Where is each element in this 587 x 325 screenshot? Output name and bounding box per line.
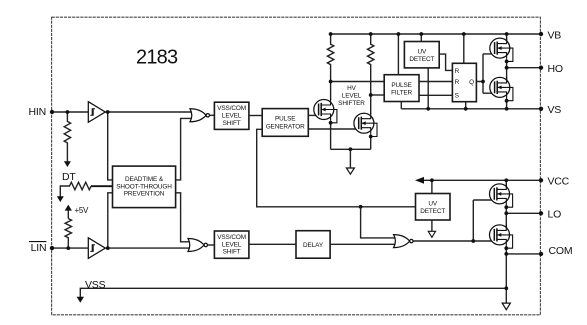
wire node A down to Q1 drain: [330, 82, 332, 101]
NOR gate G3: [394, 235, 413, 248]
pin dot LIN: [50, 246, 54, 250]
wire VCC rail to Q5 drain: [505, 180, 507, 189]
wire to VS return arrow: [349, 149, 351, 168]
svg-text:VSS/COM: VSS/COM: [217, 234, 246, 241]
node HIN junction: [66, 110, 70, 114]
node U2 output: [106, 246, 110, 250]
pulse generator block: [262, 109, 308, 137]
wire VCC rail to UV detect (low side): [431, 180, 433, 193]
open arrow below UV detect: [428, 231, 435, 237]
svg-text:UV: UV: [428, 200, 438, 207]
svg-text:DETECT: DETECT: [409, 56, 434, 63]
node G3 output branch: [471, 239, 475, 243]
svg-text:FILTER: FILTER: [391, 89, 412, 96]
svg-text:R: R: [455, 68, 460, 75]
arrow VCC (pointing left): [415, 177, 424, 184]
RS latch U3: [452, 63, 476, 101]
resistor R3 (+5V pullup on LIN): [65, 219, 71, 249]
node U1 output: [106, 110, 110, 114]
wire pulse generator to Q1 gate: [308, 114, 319, 116]
wire VB rail to UV detect: [420, 34, 422, 42]
svg-text:SHIFTER: SHIFTER: [338, 100, 365, 107]
svg-text:PULSE: PULSE: [275, 116, 295, 123]
NOR gate G2: [188, 239, 208, 252]
node LIN junction: [66, 246, 70, 250]
node level shifter common: [349, 147, 353, 151]
transistor Q1 (HV level shift left): [314, 99, 337, 125]
svg-text:DETECT: DETECT: [420, 208, 445, 215]
wire HIN buffer output to NOR gate G1: [105, 111, 193, 113]
node B junction: [369, 93, 373, 97]
pin label LIN (with overline): [29, 242, 46, 255]
VSS/COM level shift block (top): [214, 102, 249, 129]
wire branch down to NOR gate G3 upper input: [361, 207, 397, 238]
wire HIN buffer output down to deadtime block: [108, 112, 113, 180]
svg-text:Q: Q: [469, 79, 474, 86]
NOR gate G1: [190, 109, 210, 122]
svg-text:VSS/COM: VSS/COM: [217, 105, 246, 112]
UV detect block (high side): [404, 42, 439, 68]
node A junction: [329, 80, 333, 84]
svg-text:VCC: VCC: [548, 176, 570, 188]
svg-text:LEVEL: LEVEL: [222, 113, 242, 120]
wire LO rail to Q6 drain: [505, 213, 507, 230]
wire UV detect bottom to VS rail: [427, 68, 429, 109]
svg-text:PULSE: PULSE: [391, 82, 411, 89]
resistor R5 (level shift pullup right): [368, 34, 374, 95]
wire COM down to ground arrow: [505, 254, 507, 304]
resistor R4 (level shift pullup left): [327, 34, 333, 82]
wire Q3 source to HO rail: [506, 61, 508, 67]
transistor Q3 (HO high driver): [490, 38, 513, 64]
wire G3 output to LO gates: [413, 200, 494, 241]
deadtime block: [113, 166, 176, 208]
open arrow to VS (level shifter return): [346, 168, 354, 174]
wire VB rail to pulse filter: [397, 34, 399, 75]
svg-text:LO: LO: [548, 209, 562, 221]
wire UV detect to latch R input: [439, 54, 452, 70]
svg-text:SHOOT-THROUGH: SHOOT-THROUGH: [116, 183, 172, 190]
LO output rail: [506, 212, 541, 214]
+5V source arrow: [65, 205, 72, 211]
wire level shifter source rail: [331, 148, 371, 150]
wire Q2 source to common point: [370, 137, 372, 150]
IC boundary (dashed package outline): [52, 17, 541, 315]
VS feedback rail: [401, 108, 541, 110]
node low-side branch: [359, 205, 363, 209]
svg-text:DELAY: DELAY: [303, 242, 324, 249]
svg-text:SHIFT: SHIFT: [223, 249, 241, 256]
wire level shift to pulse generator: [249, 115, 262, 117]
wire Q1 source to common point: [330, 123, 332, 150]
schmitt buffer U1 (HIN): [88, 102, 105, 123]
resistor R2 (DT): [60, 182, 91, 201]
ground arrow VSS: [77, 297, 84, 303]
node Q branch: [481, 80, 485, 84]
svg-text:LEVEL: LEVEL: [222, 241, 242, 248]
wire LIN buffer output up to deadtime block: [108, 193, 113, 248]
wire LIN buffer output to NOR gate G2: [105, 247, 191, 249]
wire node B to pulse filter: [371, 94, 385, 96]
wire latch Q to output gates: [476, 54, 494, 93]
wire latch bottom to VS rail: [465, 102, 467, 109]
svg-text:HIN: HIN: [29, 106, 46, 118]
svg-text:S: S: [455, 93, 459, 100]
wire VB rail to Q3 drain: [506, 34, 508, 44]
wire level shift to delay block: [249, 243, 296, 245]
svg-text:PREVENTION: PREVENTION: [124, 191, 165, 198]
node VCC to UV detect: [430, 178, 434, 182]
HO output rail: [507, 67, 541, 69]
wire delay to NOR gate G3: [330, 243, 397, 245]
wire Q5 source to LO rail: [505, 207, 507, 213]
node VSS to COM: [504, 286, 508, 290]
transistor Q2 (HV level shift right): [354, 113, 377, 139]
wire Q4 source to VS rail: [506, 101, 508, 109]
svg-text:DT: DT: [62, 171, 76, 183]
wire VB rail to latch: [463, 34, 465, 63]
pin dot HIN: [50, 110, 54, 114]
svg-text:GENERATOR: GENERATOR: [266, 123, 305, 130]
UV detect block (low side): [416, 194, 451, 221]
wire Q6 source to COM rail: [505, 248, 507, 254]
node LO junction: [504, 211, 508, 215]
pulse filter block: [384, 75, 419, 102]
pin VB: [539, 32, 543, 36]
svg-text:HO: HO: [548, 63, 563, 75]
node HO junction: [505, 66, 509, 70]
label HV LEVEL SHIFTER: [338, 85, 365, 107]
wire G1 to level shift block: [210, 114, 215, 116]
svg-text:+5V: +5V: [75, 206, 90, 215]
wire pulse filter to latch S input: [419, 94, 452, 96]
node COM junction: [504, 252, 508, 256]
svg-text:2183: 2183: [136, 47, 178, 69]
VCC rail with arrow: [423, 179, 542, 181]
svg-text:SHIFT: SHIFT: [223, 120, 241, 127]
svg-text:COM: COM: [549, 245, 573, 257]
ground arrow below DT: [57, 196, 64, 202]
VB supply rail: [331, 33, 541, 35]
wire pulse generator enable down to low side: [257, 129, 416, 207]
svg-text:VSS: VSS: [85, 279, 106, 291]
wire node B down to Q2 drain: [370, 95, 372, 114]
svg-text:DEADTIME &: DEADTIME &: [125, 176, 164, 183]
wire G2 to level shift block (bottom): [208, 244, 215, 246]
svg-text:UV: UV: [417, 48, 427, 55]
wire node A to pulse filter: [331, 81, 385, 83]
svg-text:HV: HV: [347, 85, 357, 92]
COM output rail: [506, 253, 541, 255]
resistor R1 (HIN pulldown): [64, 112, 70, 162]
wire deadtime block to NOR gate G1 lower input: [176, 118, 193, 179]
delay block: [296, 231, 330, 259]
wire UV detect to COM arrow: [431, 220, 433, 232]
pin VS: [539, 107, 543, 111]
node VS rail junctions: [426, 107, 430, 111]
wire pulse filter bottom to VS rail: [400, 102, 402, 109]
pin VCC: [539, 178, 543, 182]
VSS/COM level shift block (bottom): [214, 231, 249, 258]
transistor Q4 (HO low driver): [490, 77, 513, 103]
ground arrow below R1: [64, 161, 71, 167]
wire pulse filter to latch R input: [419, 81, 452, 83]
transistor Q6 (LO low driver): [490, 224, 513, 250]
pin HO: [539, 66, 543, 70]
svg-text:VB: VB: [548, 29, 562, 41]
wire pulse generator to Q2 gate: [308, 128, 359, 130]
wire HO rail to Q4 drain: [506, 68, 508, 83]
wire LIN pin to buffer: [52, 247, 88, 249]
VSS rail: [80, 288, 506, 297]
svg-text:LEVEL: LEVEL: [342, 92, 362, 99]
schmitt buffer U2 (LIN): [88, 238, 105, 259]
wire deadtime block to NOR gate G2 upper input: [176, 193, 191, 242]
pin LO: [539, 211, 543, 215]
wire HIN pin to buffer: [52, 111, 88, 113]
svg-text:LIN: LIN: [31, 242, 47, 254]
open arrow below COM (substrate): [502, 303, 510, 310]
wire R2 to deadtime block: [91, 185, 113, 187]
svg-text:R: R: [455, 79, 460, 86]
transistor Q5 (LO high driver): [490, 183, 513, 209]
node VB rail junctions: [329, 32, 333, 36]
node VCC Q5 drain: [504, 178, 508, 182]
pin COM: [539, 252, 543, 256]
svg-text:VS: VS: [548, 104, 562, 116]
